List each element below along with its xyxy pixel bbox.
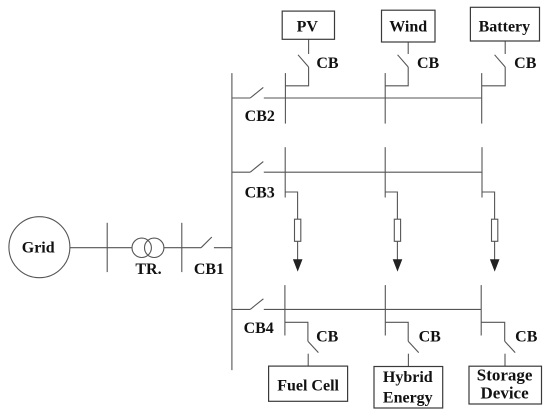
wire transformer to CB1	[164, 247, 201, 249]
wire main bus to CB2	[232, 97, 250, 99]
wire CB1 to main bus	[214, 247, 232, 249]
svg-text:CB: CB	[316, 55, 339, 72]
wire jog PV tap	[285, 67, 308, 86]
svg-text:Battery: Battery	[479, 18, 531, 35]
svg-text:CB: CB	[515, 329, 538, 346]
wire jog load 1	[285, 192, 297, 219]
wire main bus to CB3	[232, 171, 250, 173]
svg-text:TR.: TR.	[135, 261, 161, 278]
node tap Wind	[384, 73, 386, 124]
wire Battery box stub	[504, 41, 506, 54]
svg-text:Storage: Storage	[477, 365, 533, 384]
wire Fuel Cell box stub	[307, 354, 309, 366]
wire jog load 2	[385, 192, 397, 219]
wire grid to transformer	[70, 247, 132, 249]
svg-text:CB2: CB2	[245, 108, 275, 125]
svg-text:Wind: Wind	[389, 18, 427, 35]
box Fuel Cell	[269, 366, 348, 401]
breaker CB blade (Storage Device)	[505, 341, 516, 352]
wire Storage Device box stub	[504, 354, 506, 367]
wire jog Storage Device	[481, 322, 505, 341]
wire jog Hybrid Energy	[385, 322, 408, 341]
wire PV box stub	[308, 39, 310, 54]
svg-text:Grid: Grid	[22, 240, 55, 257]
bus tick T1	[106, 223, 108, 272]
box Storage Device	[469, 366, 542, 404]
svg-text:CB1: CB1	[194, 261, 224, 278]
wire jog Wind tap	[385, 67, 408, 86]
node tap Battery	[481, 73, 483, 124]
node tap Storage Device	[480, 285, 482, 335]
load arrow 1	[293, 259, 303, 271]
breaker CB3 blade	[250, 162, 263, 173]
wire Hybrid Energy box stub	[407, 354, 409, 367]
top bus	[264, 97, 482, 99]
wire load 1 to arrow	[297, 241, 299, 259]
node tap Hybrid Energy	[384, 285, 386, 335]
box PV	[282, 11, 334, 39]
svg-text:Energy: Energy	[383, 389, 433, 406]
load impedance L2	[394, 219, 400, 241]
breaker CB blade (Battery)	[495, 55, 506, 67]
wire jog Battery tap	[482, 67, 506, 86]
wire jog Fuel Cell	[285, 322, 308, 341]
svg-text:CB: CB	[417, 55, 440, 72]
wire load 3 to arrow	[494, 241, 496, 259]
breaker CB2 blade	[250, 87, 263, 98]
node tap PV	[284, 73, 286, 124]
load impedance L1	[295, 219, 301, 241]
breaker CB blade (Fuel Cell)	[308, 341, 319, 352]
load arrow 3	[490, 259, 500, 271]
svg-text:Hybrid: Hybrid	[383, 369, 433, 386]
load impedance L3	[492, 219, 498, 241]
wire load 2 to arrow	[396, 241, 398, 259]
node tap load 1	[284, 147, 286, 197]
svg-text:CB4: CB4	[244, 320, 274, 337]
svg-text:CB: CB	[316, 329, 339, 346]
grid source circle G	[9, 217, 70, 278]
wire jog load 3	[482, 192, 495, 219]
node tap Fuel Cell	[284, 285, 286, 335]
svg-text:Device: Device	[481, 384, 530, 403]
svg-text:CB: CB	[514, 55, 537, 72]
box Hybrid Energy	[374, 367, 443, 409]
node tap load 2	[384, 147, 386, 197]
svg-text:CB3: CB3	[245, 184, 275, 201]
node tap load 3	[481, 147, 483, 197]
middle bus	[264, 171, 482, 173]
breaker CB blade (Hybrid Energy)	[408, 341, 419, 352]
transformer TR winding 2	[145, 238, 164, 257]
load arrow 2	[393, 259, 403, 271]
bus tick T2	[181, 223, 183, 272]
box Wind	[382, 10, 436, 42]
svg-text:PV: PV	[297, 18, 319, 35]
wire Wind box stub	[407, 42, 409, 54]
breaker CB blade (PV)	[298, 55, 309, 67]
bottom bus	[264, 308, 481, 310]
svg-text:Fuel Cell: Fuel Cell	[277, 378, 339, 395]
wire main bus to CB4	[232, 308, 250, 310]
transformer TR winding 1	[132, 238, 151, 257]
breaker CB blade (Wind)	[398, 55, 409, 67]
box Battery	[470, 7, 539, 41]
breaker CB1 blade	[201, 237, 212, 248]
main vertical bus	[231, 73, 233, 370]
breaker CB4 blade	[250, 299, 263, 310]
svg-text:CB: CB	[419, 329, 442, 346]
